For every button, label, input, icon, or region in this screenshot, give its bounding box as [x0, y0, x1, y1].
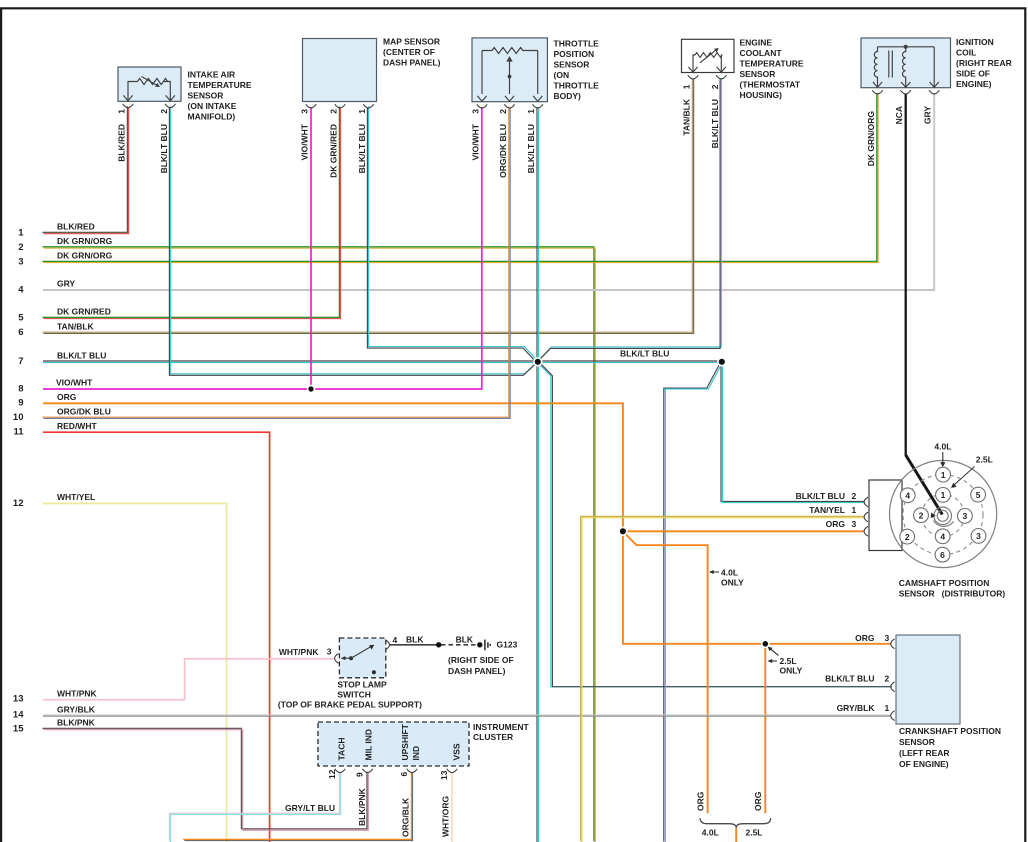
- MAP caption: [383, 37, 441, 68]
- svg-text:14: 14: [13, 709, 24, 720]
- svg-text:3: 3: [327, 647, 332, 657]
- instrument cluster box: [318, 722, 469, 766]
- svg-text:1: 1: [117, 109, 127, 114]
- svg-text:ORG/BLK: ORG/BLK: [401, 797, 411, 837]
- svg-text:3: 3: [976, 531, 981, 541]
- svg-text:(TOP OF BRAKE PEDAL SUPPORT): (TOP OF BRAKE PEDAL SUPPORT): [278, 700, 422, 710]
- svg-text:BLK/LT BLU: BLK/LT BLU: [57, 351, 106, 361]
- TPS pin numbers: [471, 109, 537, 114]
- junction dot ORG 2.5L branch: [762, 640, 769, 647]
- 4.0L ONLY label: [721, 568, 744, 588]
- connector arcs ECT pins: [688, 75, 727, 79]
- instrument cluster internal labels: [336, 723, 461, 760]
- svg-text:8: 8: [18, 383, 23, 394]
- 2.5L callout arrow at distributor: [951, 467, 975, 488]
- ignition coil caption: [956, 37, 1012, 89]
- svg-text:BLK: BLK: [406, 634, 424, 644]
- junction dot BLK wire at ground: [477, 642, 482, 647]
- IAT wire labels: [117, 124, 169, 173]
- connector arcs TPS pins: [477, 104, 543, 108]
- svg-text:2.5L: 2.5L: [745, 828, 762, 838]
- node A junction dot: [534, 358, 542, 366]
- svg-text:ONLY: ONLY: [721, 577, 744, 587]
- svg-text:ORG: ORG: [57, 392, 77, 402]
- svg-text:ONLY: ONLY: [780, 665, 803, 675]
- svg-text:UPSHIFT: UPSHIFT: [400, 723, 410, 760]
- svg-text:DK GRN/ORG: DK GRN/ORG: [866, 111, 876, 167]
- svg-text:BLK/PNK: BLK/PNK: [57, 718, 96, 728]
- instrument cluster wire labels: [285, 787, 451, 837]
- wire 6 TAN/BLK (ECT pin1 to left edge): [42, 78, 693, 334]
- svg-text:3: 3: [852, 519, 857, 529]
- TPS caption: [554, 39, 600, 102]
- svg-text:2: 2: [919, 510, 924, 520]
- svg-text:DK GRN/RED: DK GRN/RED: [57, 307, 111, 317]
- right side of dash panel caption: [448, 655, 514, 676]
- svg-text:DASH PANEL): DASH PANEL): [383, 57, 441, 67]
- svg-text:2: 2: [18, 242, 23, 253]
- camshaft connector box: [869, 480, 902, 551]
- junction dot ORG node: [619, 527, 627, 535]
- svg-text:2: 2: [329, 109, 339, 114]
- svg-text:6: 6: [940, 550, 945, 560]
- svg-text:NCA: NCA: [894, 106, 904, 124]
- svg-text:5: 5: [976, 490, 981, 500]
- svg-text:SIDE OF: SIDE OF: [956, 69, 990, 79]
- svg-text:COOLANT: COOLANT: [740, 48, 783, 58]
- instrument cluster pin numbers: [327, 769, 449, 780]
- svg-text:ENGINE): ENGINE): [956, 79, 992, 89]
- wire 8 VIO/WHT (left edge to TPS pin3, junction with MAP pin3): [43, 107, 482, 389]
- svg-text:SWITCH: SWITCH: [337, 690, 371, 700]
- crankshaft connector pin labels: [825, 633, 889, 713]
- wire 12 WHT/YEL (left edge down to bottom edge): [43, 504, 227, 842]
- svg-text:POSITION: POSITION: [554, 49, 595, 59]
- distributor dashed rings: [903, 475, 983, 555]
- svg-text:3: 3: [471, 109, 481, 114]
- svg-text:12: 12: [13, 498, 24, 509]
- svg-text:4: 4: [905, 491, 910, 501]
- svg-text:3: 3: [885, 633, 890, 643]
- svg-text:WHT/YEL: WHT/YEL: [57, 492, 95, 502]
- svg-text:1: 1: [526, 109, 536, 114]
- svg-text:VIO/WHT: VIO/WHT: [471, 123, 481, 160]
- connector arcs IAT pins: [123, 104, 176, 108]
- wire 14 GRY/BLK (left edge to crankshaft pin1): [43, 715, 891, 716]
- svg-text:10: 10: [13, 412, 24, 423]
- instrument cluster caption: [473, 722, 530, 742]
- svg-text:1: 1: [885, 703, 890, 713]
- svg-text:STOP LAMP: STOP LAMP: [337, 680, 387, 690]
- svg-text:2.5L: 2.5L: [780, 656, 797, 666]
- stop lamp switch caption: [278, 680, 422, 710]
- svg-text:SENSOR (DISTRIBUTOR): SENSOR (DISTRIBUTOR): [899, 589, 1006, 599]
- svg-text:13: 13: [439, 770, 449, 780]
- distributor center electrode: [931, 507, 954, 526]
- wire 4 GRY (ignition coil pin to left edge): [43, 94, 934, 291]
- wire NCA ignition coil secondary lead to distributor center: [906, 94, 943, 515]
- wire BLK/LT BLU node A diagonal down-right then to crankshaft pin2: [537, 362, 892, 687]
- svg-text:INTAKE AIR: INTAKE AIR: [188, 70, 236, 80]
- connector arcs ignition coil pins: [872, 90, 939, 94]
- svg-text:RED/WHT: RED/WHT: [57, 421, 97, 431]
- svg-text:TAN/BLK: TAN/BLK: [682, 98, 692, 136]
- MAP sensor box: [303, 39, 377, 102]
- wire GRY/LT BLU instrument cluster pin12 to bottom edge: [169, 772, 340, 842]
- svg-text:TEMPERATURE: TEMPERATURE: [188, 80, 252, 90]
- wire BLK stop lamp switch pin4 solid segment: [390, 644, 439, 646]
- TPS wire labels: [471, 123, 537, 178]
- svg-text:BLK/RED: BLK/RED: [117, 124, 127, 162]
- ECT pin numbers: [682, 84, 720, 89]
- svg-text:11: 11: [13, 427, 24, 438]
- node B junction dot: [718, 358, 726, 366]
- wire BLK/LT BLU node B down then right to camshaft pin2: [721, 361, 865, 502]
- svg-text:BLK/LT BLU: BLK/LT BLU: [825, 674, 874, 684]
- mid BLK/LT BLU label on wire 7: [620, 349, 669, 359]
- svg-text:1: 1: [682, 84, 692, 89]
- connector arcs camshaft pins: [864, 497, 868, 536]
- ignition coil wire labels: [866, 106, 933, 167]
- wire 7 BLK/LT BLU (left edge through node A to node B): [43, 361, 722, 363]
- svg-text:TAN/BLK: TAN/BLK: [57, 322, 95, 332]
- svg-text:(THERMOSTAT: (THERMOSTAT: [740, 80, 801, 90]
- thermistor symbol (IAT): [123, 77, 174, 101]
- svg-text:CLUSTER: CLUSTER: [473, 732, 513, 742]
- svg-text:ORG: ORG: [826, 519, 846, 529]
- svg-text:(LEFT REAR: (LEFT REAR: [899, 748, 950, 758]
- svg-text:GRY/LT BLU: GRY/LT BLU: [285, 803, 335, 813]
- svg-text:2: 2: [159, 109, 169, 114]
- svg-text:2: 2: [852, 491, 857, 501]
- svg-text:SENSOR: SENSOR: [554, 60, 590, 70]
- connector arc stop lamp pin4: [386, 640, 390, 650]
- thermistor symbol (ECT): [688, 48, 726, 72]
- wire 9 ORG (left edge, down at 622.9 to orange node): [43, 403, 623, 531]
- svg-text:SENSOR: SENSOR: [740, 69, 776, 79]
- svg-text:G123: G123: [497, 639, 518, 649]
- IAT caption: [188, 70, 252, 122]
- wire TAN/YEL camshaft pin1 to bottom edge: [581, 516, 866, 842]
- svg-text:BLK/LT BLU: BLK/LT BLU: [620, 349, 669, 359]
- svg-text:WHT/PNK: WHT/PNK: [279, 647, 320, 657]
- svg-text:BODY): BODY): [554, 91, 582, 101]
- camshaft position sensor caption: [899, 578, 1006, 599]
- connector arcs instrument cluster pins: [335, 769, 457, 773]
- svg-text:DK GRN/ORG: DK GRN/ORG: [57, 251, 113, 261]
- svg-text:MIL IND: MIL IND: [363, 729, 373, 760]
- svg-text:WHT/ORG: WHT/ORG: [441, 796, 451, 837]
- wire BLK/LT BLU intake pin2 to node A (lower-left diagonal): [169, 106, 538, 375]
- svg-text:BLK/PNK: BLK/PNK: [357, 787, 367, 826]
- wire BLK/LT BLU TPS pin1 to node A and down to bottom edge: [537, 107, 539, 842]
- svg-text:2: 2: [885, 674, 890, 684]
- svg-text:(RIGHT SIDE OF: (RIGHT SIDE OF: [448, 655, 514, 665]
- connector arcs MAP pins: [306, 104, 374, 108]
- ECT caption: [740, 38, 804, 101]
- svg-text:6: 6: [399, 772, 409, 777]
- svg-text:6: 6: [18, 327, 23, 338]
- intake air temperature sensor box: [118, 67, 181, 101]
- svg-text:4: 4: [393, 635, 398, 645]
- svg-text:4: 4: [940, 532, 945, 542]
- svg-text:BLK/LT BLU: BLK/LT BLU: [526, 124, 536, 173]
- left wire color labels: [56, 222, 113, 728]
- svg-text:BLK/LT BLU: BLK/LT BLU: [710, 99, 720, 148]
- svg-text:ORG: ORG: [696, 791, 706, 811]
- distributor engine size labels: [934, 441, 992, 464]
- MAP wire labels: [300, 123, 368, 178]
- 4.0L ONLY callout arrow: [709, 570, 719, 574]
- svg-text:DK GRN/RED: DK GRN/RED: [329, 124, 339, 178]
- bottom engine size labels: [702, 828, 763, 838]
- svg-text:1: 1: [852, 505, 857, 515]
- svg-text:VIO/WHT: VIO/WHT: [56, 378, 93, 388]
- 4.0L callout arrow at distributor: [940, 452, 945, 467]
- wire BLK dashed segment to ground: [441, 644, 478, 646]
- stop lamp switch box: [339, 638, 385, 678]
- junction dot wire8 / MAP pin3: [308, 386, 315, 393]
- svg-text:DASH PANEL): DASH PANEL): [448, 666, 506, 676]
- svg-text:BLK: BLK: [456, 634, 474, 644]
- svg-text:ORG/DK BLU: ORG/DK BLU: [498, 124, 508, 178]
- svg-text:4.0L: 4.0L: [721, 568, 738, 578]
- svg-text:INSTRUMENT: INSTRUMENT: [473, 722, 530, 732]
- svg-text:13: 13: [13, 694, 24, 705]
- svg-text:15: 15: [13, 723, 24, 734]
- connector arcs crankshaft pins: [891, 639, 895, 721]
- svg-text:2: 2: [710, 84, 720, 89]
- svg-text:1: 1: [357, 109, 367, 114]
- wire 5 DK GRN/RED (MAP pin2 to left edge): [42, 106, 340, 318]
- svg-text:9: 9: [18, 398, 23, 409]
- svg-text:GRY: GRY: [57, 279, 75, 289]
- wire 15 BLK/PNK (left edge, down, to instrument cluster pin9): [42, 728, 368, 830]
- ECT wire labels: [682, 98, 720, 148]
- svg-text:COIL: COIL: [956, 48, 976, 58]
- camshaft connector pin labels: [796, 491, 857, 529]
- svg-text:DK GRN/ORG: DK GRN/ORG: [57, 236, 113, 246]
- stop lamp switch labels: [279, 634, 518, 657]
- bottom ORG stub labels: [696, 791, 764, 811]
- svg-text:CAMSHAFT POSITION: CAMSHAFT POSITION: [899, 578, 990, 588]
- 2.5L ONLY callout arrows: [767, 647, 778, 663]
- wire ORG node to camshaft pin3: [623, 530, 865, 532]
- svg-text:3: 3: [18, 256, 23, 267]
- wire ORG 4.0L-only branch: [623, 531, 708, 813]
- ignition coil box: [861, 38, 951, 88]
- svg-text:1: 1: [941, 490, 946, 500]
- svg-text:ORG: ORG: [855, 633, 875, 643]
- svg-text:IGNITION: IGNITION: [956, 37, 994, 47]
- wire BLK/LT BLU node B steep diagonal to x=664.6 down to bottom edge: [664, 361, 723, 842]
- crankshaft position sensor caption: [899, 726, 1001, 769]
- potentiometer symbol (TPS): [477, 48, 542, 102]
- svg-text:(ON INTAKE: (ON INTAKE: [188, 101, 237, 111]
- svg-text:MANIFOLD): MANIFOLD): [188, 112, 236, 122]
- svg-text:OF ENGINE): OF ENGINE): [899, 759, 949, 769]
- svg-text:(RIGHT REAR: (RIGHT REAR: [956, 58, 1012, 68]
- stop lamp switch symbol: [341, 645, 376, 675]
- svg-text:HOUSING): HOUSING): [740, 90, 783, 100]
- svg-text:TEMPERATURE: TEMPERATURE: [740, 59, 804, 69]
- svg-text:ORG/DK BLU: ORG/DK BLU: [57, 407, 111, 417]
- svg-text:4.0L: 4.0L: [702, 828, 719, 838]
- svg-text:ENGINE: ENGINE: [740, 38, 773, 48]
- svg-text:SENSOR: SENSOR: [899, 737, 935, 747]
- svg-text:MAP SENSOR: MAP SENSOR: [383, 37, 440, 47]
- MAP pin numbers: [300, 109, 368, 114]
- svg-text:2: 2: [905, 532, 910, 542]
- wire 1 BLK/RED (intake IAT pin1 to left edge): [42, 106, 128, 233]
- svg-text:TAN/YEL: TAN/YEL: [809, 505, 845, 515]
- wire BLK/LT BLU node A diagonal up-right to ECT pin2: [537, 78, 722, 363]
- throttle position sensor box: [472, 38, 547, 102]
- wire 13 WHT/PNK (left edge to stop lamp switch pin3): [43, 659, 334, 700]
- svg-text:BLK/LT BLU: BLK/LT BLU: [159, 124, 169, 173]
- ignition coil transformer symbol: [873, 45, 939, 88]
- svg-text:4: 4: [18, 284, 24, 295]
- svg-text:THROTTLE: THROTTLE: [554, 39, 600, 49]
- svg-text:ORG: ORG: [753, 791, 763, 811]
- engine coolant temperature sensor box: [682, 39, 735, 72]
- svg-text:CRANKSHAFT POSITION: CRANKSHAFT POSITION: [899, 726, 1001, 736]
- svg-text:2.5L: 2.5L: [976, 454, 993, 464]
- distributor cap terminals outer ring: [900, 467, 986, 562]
- svg-text:IND: IND: [411, 746, 421, 761]
- svg-text:12: 12: [327, 769, 337, 779]
- svg-text:4.0L: 4.0L: [934, 441, 951, 451]
- svg-text:VSS: VSS: [451, 743, 461, 760]
- svg-text:TACH: TACH: [336, 738, 346, 761]
- svg-text:BLK/RED: BLK/RED: [57, 222, 95, 232]
- svg-text:WHT/PNK: WHT/PNK: [57, 688, 98, 698]
- svg-text:5: 5: [18, 312, 24, 323]
- crankshaft position sensor box: [896, 635, 960, 724]
- svg-text:3: 3: [300, 109, 310, 114]
- svg-text:9: 9: [355, 772, 365, 777]
- wire 2 DK GRN/ORG (left edge to bottom edge): [42, 247, 595, 842]
- wire 10 ORG/DK BLU (left edge to TPS pin2): [42, 106, 510, 418]
- wire ORG/BLK instrument cluster pin6 down and left: [183, 772, 412, 841]
- left wire number labels 1-15: [13, 227, 24, 734]
- svg-text:THROTTLE: THROTTLE: [554, 81, 600, 91]
- wire WHT/ORG instrument cluster pin13 to bottom edge: [451, 772, 453, 842]
- wire BLK/LT BLU MAP pin1 to node A (upper-left diagonal): [367, 106, 538, 362]
- svg-text:SENSOR: SENSOR: [188, 91, 224, 101]
- wire 11 RED/WHT (left edge down to bottom edge): [43, 432, 270, 842]
- svg-text:GRY: GRY: [923, 106, 933, 124]
- svg-text:VIO/WHT: VIO/WHT: [300, 123, 310, 160]
- svg-text:(CENTER OF: (CENTER OF: [383, 47, 435, 57]
- connector arc stop lamp pin3: [335, 654, 339, 664]
- svg-text:3: 3: [963, 511, 968, 521]
- svg-text:1: 1: [18, 227, 24, 238]
- underbrace merging 4.0L and 2.5L ORG wires: [700, 818, 771, 828]
- IAT pin numbers: [117, 109, 169, 114]
- svg-text:BLK/LT BLU: BLK/LT BLU: [357, 124, 367, 173]
- svg-text:1: 1: [941, 470, 946, 480]
- wire ORG 2.5L-only branch: [764, 644, 766, 813]
- svg-text:GRY/BLK: GRY/BLK: [57, 704, 96, 714]
- distributor terminal numbers: [905, 470, 981, 560]
- ground G123 symbol: [485, 640, 490, 651]
- wire 3 DK GRN/ORG (ignition coil pin to left edge): [42, 93, 878, 263]
- svg-text:GRY/BLK: GRY/BLK: [837, 703, 876, 713]
- junction dot BLK wire mid: [436, 642, 441, 647]
- 2.5L ONLY label: [780, 656, 803, 676]
- svg-text:2: 2: [498, 109, 508, 114]
- camshaft position sensor (distributor) outer circle: [890, 460, 997, 567]
- svg-text:(ON: (ON: [554, 70, 570, 80]
- wire ORG merged stub below brace to bottom edge: [735, 827, 737, 842]
- svg-text:7: 7: [18, 356, 23, 367]
- wire ORG to crankshaft pin3 (2.5L dot): [623, 531, 891, 644]
- svg-text:BLK/LT BLU: BLK/LT BLU: [796, 491, 845, 501]
- distributor inner ring terminals: [914, 488, 973, 544]
